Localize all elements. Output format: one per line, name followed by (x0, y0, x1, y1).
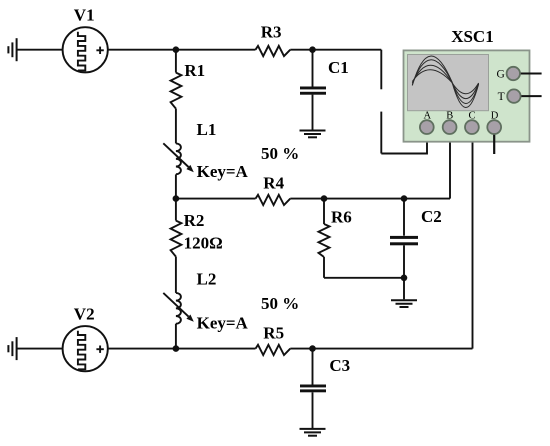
wire up to scope terminal C (472, 127, 474, 349)
svg-text:50 %: 50 % (261, 144, 299, 163)
node top junction dot (173, 46, 180, 53)
wire T terminal (514, 95, 542, 97)
node2 junction dot (173, 195, 180, 202)
resistor R1 (171, 73, 182, 109)
source V2 (63, 326, 108, 371)
svg-text:R4: R4 (263, 173, 284, 192)
wire vertical upper segment x=381 (380, 50, 382, 90)
resistor R3 (256, 46, 291, 56)
wire C1 top (312, 50, 314, 87)
terminal D stub wire (493, 127, 495, 154)
svg-text:C2: C2 (421, 207, 442, 226)
oscilloscope screen (408, 55, 489, 111)
svg-text:C1: C1 (328, 58, 349, 77)
wire up to scope terminal B (449, 127, 451, 199)
terminal T (507, 89, 520, 102)
wire C1 to ground (312, 95, 314, 130)
wire R5 to corner under C (290, 348, 472, 350)
svg-text:L1: L1 (197, 120, 217, 139)
waveform trace 3 (412, 65, 478, 98)
svg-text:R6: R6 (331, 207, 352, 226)
node C1 junction dot (309, 46, 316, 53)
terminal D (487, 120, 501, 134)
terminal A (420, 120, 434, 134)
svg-text:G: G (497, 68, 505, 80)
wire R1 to L1 (175, 109, 177, 144)
source V1 (63, 27, 108, 72)
inductor L1 (176, 143, 181, 174)
wire C3 top (312, 349, 314, 385)
wire R3 to corner (290, 49, 381, 51)
node R6 junction dot (321, 195, 328, 202)
wire vertical lower segment x=381 (380, 112, 382, 154)
capacitor C3 (300, 385, 326, 393)
inductor L2 (176, 293, 181, 324)
wire G terminal (513, 73, 541, 75)
ground of C3 (300, 429, 326, 436)
ground of C1 (300, 131, 326, 138)
svg-text:R2: R2 (184, 211, 205, 230)
resistor R2 (171, 221, 182, 257)
wire GND2 to V2 (17, 348, 63, 350)
wire node to R6 (323, 199, 325, 224)
wire C2 to ground (403, 245, 405, 299)
svg-text:C3: C3 (329, 356, 350, 375)
wire node2 to R2 (175, 199, 177, 221)
wire L1 to node2 (175, 174, 177, 198)
variable arrow of L2 (163, 293, 194, 322)
wire node2 to R4 (176, 198, 256, 200)
terminal C (465, 120, 479, 134)
wire R2 to L2 (175, 257, 177, 293)
variable arrow of L1 (163, 143, 194, 172)
node3 junction dot (173, 345, 180, 352)
resistor R5 (256, 345, 291, 355)
node C3 junction dot (309, 345, 316, 352)
svg-text:V2: V2 (74, 305, 95, 324)
svg-text:50 %: 50 % (261, 294, 299, 313)
capacitor C1 (300, 87, 326, 95)
wire GND1 to V1 (17, 49, 63, 51)
wire L2 to node3 (175, 324, 177, 349)
resistor R6 (319, 224, 330, 257)
svg-text:Key=A: Key=A (197, 314, 249, 333)
wire node to C2 (403, 199, 405, 236)
wire node to R1 (175, 50, 177, 73)
wire C3 to ground (312, 392, 314, 428)
wire R6 bottom (323, 257, 325, 278)
svg-text:Key=A: Key=A (197, 162, 249, 181)
waveform trace 1 (412, 56, 478, 107)
ground GND1 left of V1 (8, 38, 16, 61)
oscilloscope XSC1 body (404, 50, 530, 141)
wire to scope terminal A (381, 127, 427, 154)
node C2 bottom junction dot (401, 275, 408, 282)
svg-text:L2: L2 (197, 270, 217, 289)
wire R4 to corner under B (290, 198, 450, 200)
terminal G (507, 67, 520, 80)
svg-text:V1: V1 (74, 5, 95, 24)
wire R6 to C2 bottom (324, 277, 404, 279)
wire V1 to R3 (108, 49, 256, 51)
capacitor C2 (390, 236, 418, 245)
ground GND2 left of V2 (8, 337, 16, 360)
terminal B (443, 120, 457, 134)
wire V2 to R5 (108, 348, 256, 350)
svg-text:T: T (498, 91, 505, 103)
waveform trace 2 (412, 60, 478, 104)
resistor R4 (256, 195, 291, 205)
svg-text:120Ω: 120Ω (184, 233, 223, 252)
svg-text:R1: R1 (184, 61, 205, 80)
svg-text:XSC1: XSC1 (451, 27, 494, 46)
ground of C2 (391, 300, 417, 307)
svg-text:R3: R3 (261, 23, 282, 42)
waveform trace 4 (412, 70, 478, 94)
node C2 junction dot (401, 195, 408, 202)
svg-text:R5: R5 (263, 323, 284, 342)
